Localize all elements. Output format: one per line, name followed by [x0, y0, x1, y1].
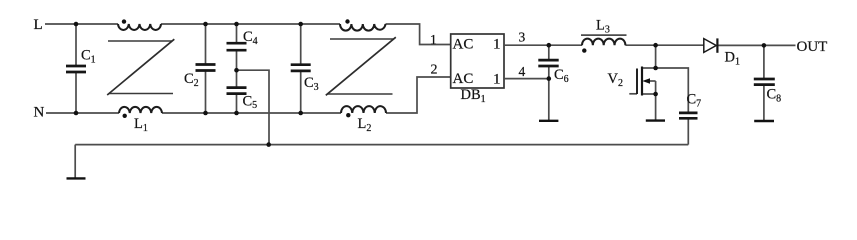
svg-text:3: 3 [519, 30, 526, 45]
svg-text:OUT: OUT [797, 39, 828, 55]
svg-text:4: 4 [519, 64, 526, 79]
svg-text:C3: C3 [304, 75, 319, 93]
svg-text:C2: C2 [184, 71, 199, 89]
svg-text:2: 2 [431, 63, 438, 78]
svg-text:L2: L2 [358, 116, 372, 134]
svg-text:L3: L3 [596, 18, 610, 36]
svg-text:L1: L1 [134, 116, 148, 134]
svg-text:DB1: DB1 [461, 87, 486, 105]
svg-text:C4: C4 [243, 29, 258, 47]
svg-text:AC: AC [453, 37, 474, 53]
svg-text:D1: D1 [725, 50, 740, 68]
svg-text:1: 1 [493, 37, 501, 53]
svg-text:L: L [34, 17, 43, 33]
svg-text:C1: C1 [81, 48, 96, 66]
svg-text:C6: C6 [554, 67, 569, 85]
svg-text:C5: C5 [243, 94, 258, 112]
svg-text:C8: C8 [767, 87, 782, 105]
svg-text:V2: V2 [608, 71, 623, 89]
svg-text:1: 1 [493, 72, 501, 88]
svg-text:AC: AC [453, 71, 474, 87]
svg-text:N: N [34, 105, 45, 121]
svg-text:1: 1 [430, 32, 437, 47]
svg-text:C7: C7 [687, 92, 702, 110]
